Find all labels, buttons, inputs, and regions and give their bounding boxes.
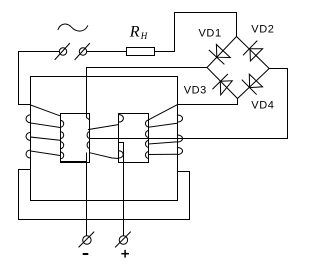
winding W1 core bumps (61, 120, 64, 158)
wire: right outer vertical (177, 77, 179, 201)
wire: bridge left node to center vertical (87, 67, 208, 69)
diode VD3 (213, 74, 233, 95)
winding W2 leg2 bumps (119, 115, 124, 158)
svg-text:VD2: VD2 (251, 24, 274, 36)
wire: bridge right node down (269, 69, 287, 139)
winding W1 slants (31, 105, 61, 156)
wire: inner bottom loop (31, 200, 178, 202)
wire: leg2 inner end to plus terminal (119, 143, 124, 236)
label minus (84, 253, 88, 255)
wire: outer bottom loop (19, 170, 190, 220)
resistor RH (127, 48, 155, 56)
winding W2 slant a (89, 125, 118, 130)
winding W3 outer bumps (178, 115, 183, 155)
winding W3 slants (149, 105, 178, 155)
terminal plus (115, 232, 130, 247)
core leg 2 (119, 114, 149, 163)
winding W2 leg1 bumps (87, 132, 89, 149)
wire: center vertical from bridge left node (87, 68, 90, 130)
winding W1 loops (26, 115, 31, 158)
wire: left outer vertical (30, 77, 32, 201)
wire: left lead from terminal X1 (19, 52, 60, 105)
core leg 1 (61, 114, 90, 163)
svg-text:VD4: VD4 (251, 100, 274, 112)
winding W2 slant b (90, 153, 119, 159)
winding W3 leg2 right bumps (145, 120, 148, 158)
wire C: top bypass (31, 76, 178, 78)
diode VD1 (209, 45, 230, 65)
svg-text:VD1: VD1 (199, 28, 222, 40)
wire: leg1 inner end to minus terminal (61, 153, 87, 235)
wire: bridge bottom node to left (178, 99, 238, 105)
label plus (122, 251, 128, 257)
diode VD4 (242, 74, 263, 94)
terminal minus (79, 232, 94, 247)
bridge diamond (207, 37, 269, 99)
wire: terminal X2 to resistor (87, 51, 127, 53)
terminal X1 (plug) (59, 48, 66, 55)
diode VD2 (243, 41, 262, 61)
AC source squiggle (58, 24, 88, 31)
wire E: middle horizontal (90, 138, 288, 140)
terminal X2 (plug) (79, 48, 86, 55)
svg-text:VD3: VD3 (184, 85, 207, 97)
wire: resistor to bridge top node (155, 13, 237, 52)
